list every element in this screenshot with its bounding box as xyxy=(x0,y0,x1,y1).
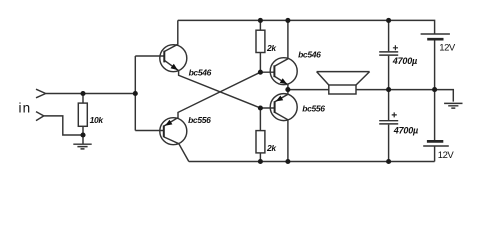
svg-text:bc556: bc556 xyxy=(188,115,211,125)
svg-text:4700µ: 4700µ xyxy=(392,56,417,66)
svg-text:bc546: bc546 xyxy=(189,67,212,77)
svg-text:10k: 10k xyxy=(90,115,105,125)
svg-text:in: in xyxy=(19,101,32,116)
svg-text:4700µ: 4700µ xyxy=(393,126,418,136)
svg-text:bc546: bc546 xyxy=(298,50,321,60)
svg-text:2k: 2k xyxy=(266,143,277,153)
svg-text:12V: 12V xyxy=(438,150,455,161)
svg-text:12V: 12V xyxy=(439,42,456,53)
svg-text:bc556: bc556 xyxy=(302,103,325,113)
svg-text:2k: 2k xyxy=(266,43,277,53)
